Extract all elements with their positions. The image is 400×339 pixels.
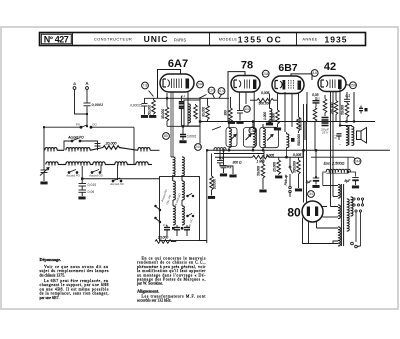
resistor D 50.000 [345,103,349,117]
svg-text:8.000: 8.000 [271,113,275,121]
cap 0,1 + 300ohm [219,150,221,160]
svg-text:0,005: 0,005 [261,91,269,95]
cap on plate line [337,133,342,135]
pickup switch [289,157,291,166]
30uF stack [322,117,329,119]
IFT box 2 [244,122,257,151]
mains terminals bottom [351,242,361,248]
svg-text:0,1: 0,1 [346,94,351,98]
transformer left leads [317,186,339,244]
svg-text:MODÈLE: MODÈLE [219,37,238,42]
svg-text:1935: 1935 [325,35,348,45]
terminal A [86,87,89,90]
resistor 10.000 bottom of box [155,240,176,244]
svg-text:15: 15 [317,97,321,101]
svg-text:244: 244 [195,145,201,149]
svg-text:25 V: 25 V [321,131,329,135]
coil right 1.000 [270,108,272,122]
ground left trimmer [40,182,47,185]
resistor 500.000 horizontal [250,99,257,101]
volume control resistor [261,157,265,189]
left vertical down [43,127,45,164]
trimmer variable cap left [40,165,49,182]
tube 42 envelope [318,76,346,92]
cap mid [239,109,241,112]
svg-text:PARIS: PARIS [174,38,186,43]
svg-text:110: 110 [209,89,215,93]
svg-text:0,0001: 0,0001 [92,103,104,107]
cap to gnd [144,98,146,103]
cap 0,1 [223,150,225,165]
tube 80 rectifier [302,201,323,222]
8uF capacitor left [313,150,319,184]
svg-text:1355 OC: 1355 OC [238,35,283,45]
diagonal to pin circle [199,95,207,99]
bus under 6A7 [145,97,230,99]
svg-text:par une 6B7.: par une 6B7. [40,296,60,300]
svg-text:110: 110 [244,107,249,111]
header banner [40,33,366,46]
svg-text:4,6: 4,6 [312,71,317,75]
svg-text:244: 244 [197,83,203,87]
AVC bus [150,149,160,151]
switches inside right [187,195,189,197]
capacitor antenna series [84,103,91,106]
svg-text:Dépannage.: Dépannage. [40,257,62,262]
plate and screen [340,89,354,126]
terminal a [73,87,76,90]
svg-text:0,06: 0,06 [88,190,95,194]
svg-text:80: 80 [164,134,168,138]
padding: right of osc box [207,150,227,240]
svg-text:50.000: 50.000 [147,105,151,115]
oscillator box [155,177,200,241]
heater pair verticals long [171,156,182,158]
resistor A [324,95,326,99]
svg-text:ANNÉE: ANNÉE [302,37,317,42]
6B7 plate down to 1M bus [302,150,304,157]
svg-text:30.000: 30.000 [202,107,206,117]
small caps stack right of 6A7 pins [180,96,182,126]
under 6B7 resistors [276,92,301,133]
antenna bus [44,126,134,128]
svg-text:25.000: 25.000 [273,162,277,173]
tube 6B7 top-cap wire [291,74,312,80]
svg-text:Exc. 2.500Ω: Exc. 2.500Ω [324,162,345,166]
caps at bottom inside [164,227,170,229]
svg-text:0,015: 0,015 [88,183,97,187]
bus y126 [167,125,200,127]
tube 6A7 top-cap wire [158,70,181,99]
resistor 25.000 [278,157,280,160]
svg-text:Accord PO: Accord PO [65,174,80,178]
svg-text:4,4: 4,4 [219,89,224,93]
long heater pair from 42 down to transformer [331,92,334,207]
grounds under 6A7 [141,115,148,118]
osc coil box [184,100,200,126]
svg-text:N° 427: N° 427 [44,35,69,45]
resistor B [313,108,317,122]
svg-text:0,00025: 0,00025 [130,104,142,108]
tube 6A7 envelope [160,74,194,92]
svg-text:8μF: 8μF [345,179,352,183]
speaker [357,131,362,140]
svg-text:250.000: 250.000 [330,103,334,116]
junction + caps 0,015 / 0,06 [79,150,160,196]
svg-text:500.000: 500.000 [297,134,301,146]
B+ bus verticals [199,118,201,122]
svg-text:CONSTRUCTEUR: CONSTRUCTEUR [94,37,132,42]
svg-text:UNIC: UNIC [144,34,169,44]
right vertical down [133,127,135,151]
box cap [95,144,101,151]
svg-text:20.000: 20.000 [213,179,217,190]
svg-text:0,1: 0,1 [181,94,186,98]
IFT box 3 [260,124,279,150]
svg-text:80: 80 [287,206,301,220]
cap 0,05 [313,100,320,102]
coil L2 [66,148,78,151]
svg-text:Accord GO: Accord GO [88,174,104,178]
antenna labels [73,81,103,127]
svg-text:Accord OC: Accord OC [109,182,125,186]
svg-text:244: 244 [355,160,361,164]
switches outside left [155,205,157,207]
svg-text:42: 42 [324,61,336,73]
svg-text:259: 259 [350,84,356,88]
svg-text:0,1: 0,1 [333,134,337,139]
svg-text:par W. Sorokine.: par W. Sorokine. [137,282,163,286]
cap 0,0001 at 183 [182,126,184,134]
line from pickup contacts down [289,193,291,197]
svg-text:du châssis 1375.: du châssis 1375. [40,273,66,277]
resistor 50.000 [153,98,155,100]
svg-text:78: 78 [241,60,253,72]
coil L3 [138,148,150,151]
svg-text:1.000: 1.000 [263,112,267,120]
svg-text:500.000: 500.000 [292,161,296,173]
tube 6B7 envelope [272,76,304,94]
svg-text:6B7: 6B7 [278,62,297,74]
wire A down [86,89,88,125]
bottom bus [200,241,207,244]
resistor 30.000 [207,98,209,105]
tube labels [168,58,336,220]
svg-text:7,8: 7,8 [143,84,148,88]
resistor 20.000 [103,146,119,150]
8uF capacitor right [352,178,358,186]
42 plate to output transformer already; screen bus [353,92,355,122]
resistor 35.000 on osc grid [166,93,168,107]
svg-text:Accord PO: Accord PO [67,136,84,140]
mid verticals to bottom [263,150,265,157]
svg-text:300 Ω: 300 Ω [233,161,242,165]
svg-text:6A7: 6A7 [168,58,188,70]
svg-text:Alignement.: Alignement. [137,289,159,294]
junction dots [43,97,355,178]
svg-text:accordés sur 132 kHz.: accordés sur 132 kHz. [137,299,172,303]
resistor 300 [230,97,232,108]
long B+ top bus [200,121,375,123]
pin number circles [142,70,361,198]
svg-text:50.000: 50.000 [341,105,345,115]
IFT box 1 [226,124,237,151]
svg-text:Pick-up: Pick-up [284,174,288,185]
tube 78 envelope [231,76,260,93]
svg-text:244: 244 [263,72,269,76]
long vertical x200 [199,98,201,143]
cap 0,1 top [344,98,350,100]
svg-text:35.000: 35.000 [161,109,165,119]
svg-text:20.000: 20.000 [105,142,117,146]
svg-text:0,005: 0,005 [293,153,301,157]
tube 78 top-cap wire [228,72,245,97]
from osc box bottom to bus [175,241,177,242]
resistor C [335,92,337,101]
switch PO/GO contacts [80,126,82,128]
IFT4 coil + diode load [287,132,295,157]
svg-text:0,1: 0,1 [219,156,224,160]
svg-text:500.000: 500.000 [259,102,271,106]
small rf choke bumps [214,148,226,151]
switches under row2 [68,170,122,182]
coil L1 [45,148,57,151]
coils inside [173,181,175,200]
svg-text:34: 34 [309,192,313,196]
second bus with 1M [215,156,253,158]
resistor 500.000 [298,157,300,160]
choke on AVC bus [214,153,264,155]
cap E [359,107,363,109]
svg-text:10.000: 10.000 [158,236,168,240]
pickup area under bus [217,150,300,192]
voltage selector terminals [353,198,364,246]
wire a down [75,89,88,114]
svg-text:100.000: 100.000 [299,118,303,130]
svg-text:1 MΩ: 1 MΩ [256,160,264,164]
svg-text:0,1: 0,1 [163,223,167,227]
svg-text:0,0001: 0,0001 [187,135,197,139]
down wires [239,92,254,127]
svg-text:0,005: 0,005 [266,153,274,157]
svg-text:300: 300 [223,110,227,116]
svg-text:50.000: 50.000 [257,166,261,176]
diagonal from pin circle 7,8 [149,91,154,97]
down wires from tube [171,92,173,157]
